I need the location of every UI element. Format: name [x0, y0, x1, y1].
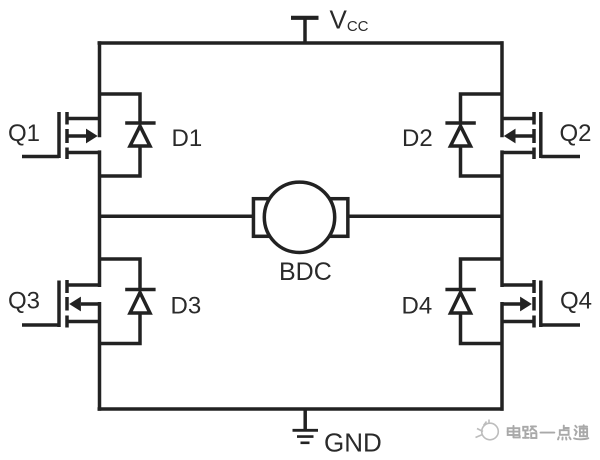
motor BDC brush terminal right: [328, 199, 348, 237]
transistor Q1 (P-MOSFET, high side left): [22, 112, 100, 159]
char 路: [523, 426, 536, 438]
svg-text:Q2: Q2: [560, 120, 592, 147]
wire right rail middle (Q2 source to Q4 drain): [500, 150, 504, 287]
ground symbol GND: [293, 408, 319, 443]
char 点: [558, 426, 571, 440]
wire left rail middle (Q1 source to Q3 drain): [98, 150, 102, 287]
wire motor left lead: [100, 215, 254, 219]
diode D1 (body diode of Q1): [100, 94, 156, 176]
svg-text:GND: GND: [324, 428, 382, 458]
char 通: [574, 425, 588, 439]
svg-text:D2: D2: [402, 125, 433, 152]
wire bottom rail GND bus: [98, 407, 504, 411]
wire top rail VCC bus: [98, 41, 504, 45]
watermark logo doodle: [476, 420, 499, 440]
diode D4 (body diode of Q4): [445, 259, 502, 344]
diode D2 (body diode of Q2): [445, 94, 502, 176]
motor BDC body circle: [264, 182, 334, 252]
watermark text 电路一点通 (drawn as vector strokes): [508, 425, 589, 439]
char 一: [541, 432, 555, 434]
motor BDC brush terminal left: [253, 199, 273, 237]
svg-text:Q1: Q1: [8, 120, 40, 147]
transistor Q2 (P-MOSFET, high side right): [502, 112, 580, 159]
wire motor right lead: [348, 215, 502, 219]
svg-text:Q3: Q3: [8, 288, 40, 315]
transistor Q4 (N-MOSFET, low side right): [502, 280, 580, 328]
power symbol VCC: [291, 16, 319, 45]
svg-text:D1: D1: [172, 125, 203, 152]
wire left rail lower (Q3 source to GND bus): [98, 302, 102, 411]
wire right rail upper (VCC through Q2 drain to Q2 bulk): [500, 41, 504, 137]
svg-text:BDC: BDC: [279, 258, 332, 286]
svg-text:D3: D3: [171, 293, 202, 320]
svg-text:VCC: VCC: [330, 4, 369, 35]
wire left rail upper (VCC through Q1 drain to Q1 bulk): [98, 41, 102, 137]
svg-text:Q4: Q4: [560, 288, 592, 315]
transistor Q3 (N-MOSFET, low side left): [22, 280, 100, 328]
diode D3 (body diode of Q3): [100, 259, 156, 344]
svg-text:D4: D4: [402, 293, 433, 320]
wire right rail lower (Q4 source to GND bus): [500, 302, 504, 411]
char 电: [508, 426, 520, 438]
